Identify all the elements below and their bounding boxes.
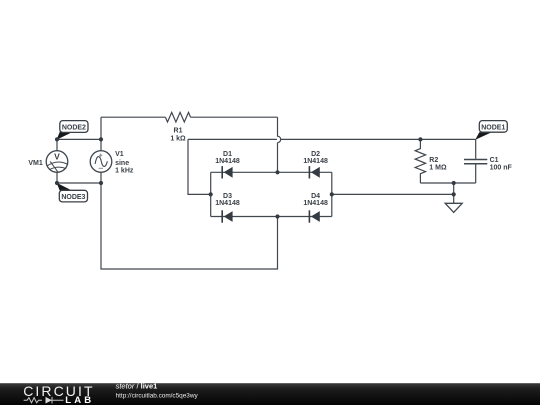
svg-text:1N4148: 1N4148 — [215, 158, 240, 165]
svg-text:R2: R2 — [429, 157, 438, 164]
junction dot node3 left — [55, 181, 59, 185]
svg-text:R1: R1 — [174, 127, 183, 134]
svg-text:1 kΩ: 1 kΩ — [170, 136, 186, 143]
footer bar — [0, 383, 540, 405]
voltmeter VM1 — [46, 151, 68, 173]
node NODE2 flag pointer — [57, 131, 73, 139]
wire ground vertical — [453, 183, 455, 203]
svg-text:V: V — [54, 151, 60, 161]
wire VM1 top lead — [56, 139, 58, 151]
svg-text:http://circuitlab.com/c5qe3wy: http://circuitlab.com/c5qe3wy — [116, 392, 199, 399]
junction dot RC bottom — [452, 181, 456, 185]
junction dot bridge top — [275, 170, 279, 174]
junction dot bridge bottom — [275, 214, 279, 218]
svg-text:1 kHz: 1 kHz — [115, 168, 134, 175]
svg-text:NODE1: NODE1 — [481, 124, 505, 131]
wire bridge top row — [211, 171, 332, 173]
wire V1 leads and up to top — [100, 117, 102, 183]
wire R2 C1 bottom — [420, 182, 475, 184]
wire bridge bottom row — [211, 216, 332, 218]
diode D2 — [309, 166, 319, 178]
wire mid horizontal right of hop — [281, 138, 476, 140]
svg-text:100 nF: 100 nF — [490, 165, 513, 172]
wire bridge to ground node — [332, 193, 454, 195]
node NODE1 flag pointer — [475, 132, 491, 140]
svg-text:VM1: VM1 — [28, 160, 43, 167]
junction dot node2 left — [55, 137, 59, 141]
wire bridge right vertical — [331, 172, 333, 216]
capacitor C1 — [464, 139, 487, 183]
wire left drop to bridge — [188, 139, 211, 194]
wire node3 horizontal — [57, 182, 101, 184]
node NODE3 box — [59, 190, 87, 202]
resistor R1 — [165, 112, 190, 122]
svg-text:NODE3: NODE3 — [61, 194, 85, 201]
svg-text:1 MΩ: 1 MΩ — [429, 165, 447, 172]
junction dot R2 top — [418, 137, 422, 141]
diode D3 — [222, 210, 232, 222]
wire top to R1 — [101, 116, 165, 118]
svg-text:D2: D2 — [311, 151, 320, 158]
svg-text:LAB: LAB — [65, 395, 94, 405]
wire R1 to corner — [191, 116, 278, 118]
junction dot node2 right — [99, 137, 103, 141]
svg-text:1N4148: 1N4148 — [303, 158, 328, 165]
svg-text:stetor / live1: stetor / live1 — [116, 382, 158, 391]
junction dot node3 right — [99, 181, 103, 185]
node NODE1 box — [479, 121, 507, 133]
junction dot bridge left — [209, 192, 213, 196]
svg-text:sine: sine — [115, 160, 129, 167]
ground symbol — [445, 203, 462, 212]
wire bottom loop V1 to bridge — [101, 183, 278, 269]
wire mid horizontal left of hop — [188, 138, 277, 140]
svg-text:1N4148: 1N4148 — [215, 200, 240, 207]
svg-text:D1: D1 — [223, 151, 232, 158]
svg-text:1N4148: 1N4148 — [303, 200, 328, 207]
wire VM1 bottom lead — [56, 173, 58, 184]
diode D4 — [309, 210, 319, 222]
voltage source V1 — [90, 151, 112, 173]
svg-text:NODE2: NODE2 — [62, 125, 86, 132]
diode D1 — [222, 166, 232, 178]
resistor R2 — [415, 139, 425, 183]
wire node2 horizontal — [57, 138, 101, 140]
node NODE2 box — [60, 121, 88, 133]
junction dot ground tee — [452, 192, 456, 196]
svg-text:C1: C1 — [490, 157, 499, 164]
junction dot bridge right — [330, 192, 334, 196]
svg-text:D4: D4 — [311, 193, 320, 200]
svg-text:V1: V1 — [115, 151, 124, 158]
footer logo squiggle resistor diode — [24, 397, 64, 404]
wire bridge left vertical — [210, 172, 212, 216]
wire vertical with hop over mid wire — [278, 117, 281, 172]
node NODE3 flag pointer — [57, 183, 72, 191]
svg-text:D3: D3 — [223, 193, 232, 200]
